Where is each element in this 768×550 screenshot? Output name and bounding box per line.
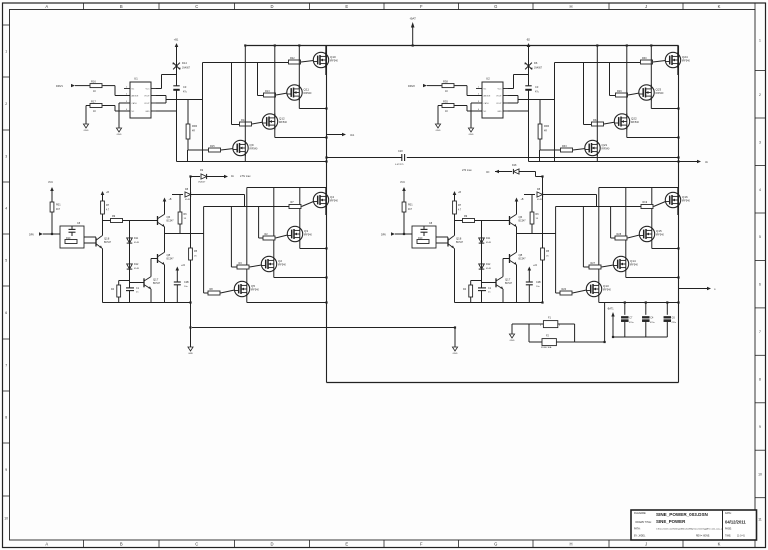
svg-text:Q3: Q3	[304, 229, 308, 233]
svg-text:GND: GND	[436, 130, 441, 132]
svg-text:6: 6	[5, 311, 7, 315]
svg-text:DRV2: DRV2	[408, 84, 415, 88]
svg-text:R17: R17	[91, 100, 96, 104]
svg-text:G: G	[494, 4, 497, 9]
svg-text:BC547: BC547	[167, 221, 175, 223]
svg-text:R30: R30	[642, 57, 647, 60]
svg-text:Q14: Q14	[630, 259, 636, 263]
svg-text:R20: R20	[562, 288, 567, 291]
svg-text:K: K	[718, 542, 721, 547]
svg-text:7: 7	[759, 330, 761, 334]
svg-text:U1: U1	[134, 77, 138, 81]
svg-text:IRF540: IRF540	[602, 148, 611, 151]
svg-text:3: 3	[5, 155, 7, 159]
svg-text:Q4: Q4	[330, 195, 334, 199]
svg-text:ANODE: ANODE	[484, 95, 491, 98]
svg-text:D11: D11	[486, 237, 491, 240]
svg-text:4K7: 4K7	[56, 209, 61, 211]
svg-text:5: 5	[5, 259, 7, 263]
svg-text:1K: 1K	[445, 110, 448, 113]
svg-text:0A: 0A	[231, 175, 234, 178]
svg-text:DRV1: DRV1	[56, 84, 63, 88]
svg-text:FUSE 30A: FUSE 30A	[541, 346, 552, 349]
svg-text:Q6: Q6	[167, 215, 171, 219]
svg-text:-B2: -B2	[526, 39, 531, 42]
svg-text:C: C	[195, 542, 198, 547]
svg-text:IRF540: IRF540	[330, 60, 339, 63]
svg-text:VOUT: VOUT	[496, 96, 502, 98]
svg-text:11: 11	[758, 517, 762, 521]
svg-text:Q17: Q17	[505, 277, 511, 281]
svg-text:IRF540: IRF540	[304, 234, 313, 237]
svg-text:CN: CN	[486, 172, 490, 174]
svg-text:D18: D18	[512, 164, 517, 167]
svg-text:R33: R33	[562, 145, 567, 148]
svg-text:H: H	[569, 4, 572, 9]
svg-text:04/12/2011: 04/12/2011	[725, 520, 746, 525]
svg-text:R38: R38	[443, 80, 448, 84]
svg-text:RFR: RFR	[192, 125, 197, 128]
svg-text:GND: GND	[84, 130, 89, 132]
svg-text:1: 1	[540, 325, 541, 327]
svg-text:E: E	[345, 542, 348, 547]
svg-text:270 max: 270 max	[462, 169, 472, 172]
svg-text:10: 10	[4, 517, 8, 521]
svg-text:R35: R35	[443, 100, 448, 104]
svg-text:DRV: DRV	[381, 234, 386, 237]
svg-text:4: 4	[5, 207, 7, 211]
svg-text:0.47/275: 0.47/275	[395, 164, 404, 166]
svg-text:CATH: CATH	[484, 102, 490, 105]
svg-text:Q22: Q22	[631, 116, 637, 120]
svg-text:2: 2	[559, 325, 560, 327]
svg-text:4K7: 4K7	[408, 209, 413, 211]
svg-text:Q15: Q15	[656, 229, 662, 233]
svg-text:1K: 1K	[93, 110, 96, 113]
svg-text:VCC: VCC	[400, 181, 405, 184]
svg-text:J: J	[645, 4, 647, 9]
svg-text:Q12: Q12	[279, 116, 285, 120]
svg-text:Q17: Q17	[153, 277, 159, 281]
svg-text:9: 9	[5, 468, 7, 472]
svg-text:IRF540: IRF540	[631, 121, 640, 124]
svg-text:11-0-41: 11-0-41	[737, 536, 745, 538]
svg-text:Q23: Q23	[656, 87, 662, 91]
svg-text:Q10: Q10	[330, 55, 336, 59]
svg-text:Q9: Q9	[250, 143, 254, 147]
svg-text:D: D	[270, 4, 273, 9]
svg-text:REV= NONE:: REV= NONE:	[696, 536, 710, 538]
svg-text:BC547: BC547	[104, 242, 112, 244]
svg-text:D: D	[270, 542, 273, 547]
svg-text:R01: R01	[56, 204, 61, 207]
svg-text:Q8: Q8	[519, 253, 523, 257]
svg-text:C2B: C2B	[184, 281, 189, 284]
svg-text:10: 10	[758, 472, 762, 476]
svg-text:BC547: BC547	[505, 283, 513, 285]
svg-text:BY: JADEL: BY: JADEL	[634, 535, 646, 538]
svg-text:R19: R19	[643, 201, 648, 204]
svg-text:1: 1	[5, 50, 7, 54]
svg-text:DATE:: DATE:	[725, 512, 732, 515]
svg-text:4R: 4R	[192, 131, 195, 133]
svg-text:IRF540: IRF540	[279, 121, 288, 124]
svg-text:B: B	[120, 542, 123, 547]
svg-text:2: 2	[5, 102, 7, 106]
svg-text:Q18: Q18	[456, 237, 462, 241]
svg-text:Q16: Q16	[682, 195, 688, 199]
svg-text:Q8: Q8	[167, 253, 171, 257]
svg-text:G: G	[494, 542, 497, 547]
svg-text:8: 8	[759, 378, 761, 382]
svg-text:-BAT: -BAT	[410, 17, 417, 21]
svg-text:IRF540: IRF540	[304, 92, 313, 95]
svg-text:VOUT: VOUT	[144, 103, 150, 105]
svg-text:B: B	[120, 4, 123, 9]
svg-text:FILENAME:: FILENAME:	[634, 512, 646, 515]
svg-text:C3: C3	[183, 85, 187, 89]
svg-text:1K: 1K	[93, 90, 96, 93]
svg-text:Q2: Q2	[278, 259, 282, 263]
svg-text:R22: R22	[290, 57, 295, 60]
svg-text:R10: R10	[418, 237, 423, 240]
svg-text:IRF540: IRF540	[250, 148, 259, 151]
svg-text:J: J	[645, 542, 647, 547]
svg-text:5: 5	[759, 235, 761, 239]
svg-text:Q13: Q13	[603, 284, 609, 288]
svg-text:-BAT1: -BAT1	[607, 308, 614, 311]
svg-text:GND: GND	[453, 353, 458, 355]
svg-text:Q6: Q6	[519, 215, 523, 219]
svg-text:8: 8	[5, 416, 7, 420]
svg-text:Q5: Q5	[251, 284, 255, 288]
svg-text:IRF540: IRF540	[682, 200, 691, 203]
svg-text:R27: R27	[591, 262, 596, 265]
svg-text:GND: GND	[497, 111, 502, 113]
svg-text:R29: R29	[617, 90, 622, 93]
svg-text:GND: GND	[145, 111, 150, 113]
svg-text:GND: GND	[188, 353, 193, 355]
svg-text:R16: R16	[91, 80, 96, 84]
svg-text:K: K	[718, 4, 721, 9]
svg-text:4148: 4148	[134, 268, 140, 270]
svg-text:+B1: +B1	[174, 39, 179, 42]
svg-text:1N4007: 1N4007	[534, 68, 543, 70]
svg-text:4148: 4148	[486, 242, 492, 244]
svg-text:R13: R13	[265, 90, 270, 93]
svg-text:Q24: Q24	[682, 55, 688, 59]
svg-text:E: E	[345, 4, 348, 9]
svg-text:IRF540: IRF540	[656, 234, 665, 237]
svg-text:GND: GND	[117, 134, 122, 136]
svg-text:BC547: BC547	[519, 259, 527, 261]
svg-text:4: 4	[759, 188, 761, 192]
svg-text:GND: GND	[510, 340, 515, 342]
svg-text:D11: D11	[134, 237, 139, 240]
svg-text:TIME:: TIME:	[725, 536, 731, 538]
svg-text:F: F	[420, 542, 423, 547]
svg-text:F: F	[420, 4, 423, 9]
svg-text:SINE_POWER: SINE_POWER	[656, 519, 686, 524]
svg-text:VCC: VCC	[146, 89, 151, 91]
svg-text:A: A	[45, 542, 48, 547]
svg-text:+B: +B	[458, 191, 461, 194]
svg-text:C:\Documents and Settings\Moha: C:\Documents and Settings\Mohamed\My Doc…	[656, 528, 723, 531]
svg-text:A: A	[45, 4, 48, 9]
svg-text:IRF540: IRF540	[603, 289, 612, 292]
svg-text:C3: C3	[535, 85, 539, 89]
svg-text:IRF540: IRF540	[682, 60, 691, 63]
svg-text:DRV: DRV	[29, 234, 34, 237]
svg-text:+B: +B	[521, 199, 524, 201]
svg-text:VOUT: VOUT	[496, 103, 502, 105]
svg-text:6: 6	[759, 283, 761, 287]
svg-text:SINE_POWER_003.DSN: SINE_POWER_003.DSN	[656, 512, 709, 517]
svg-text:1N4007: 1N4007	[182, 68, 191, 70]
svg-text:4R: 4R	[544, 131, 547, 133]
svg-text:IRF540: IRF540	[251, 289, 260, 292]
svg-text:VCC: VCC	[48, 181, 53, 184]
svg-text:D14: D14	[182, 61, 187, 65]
svg-text:C2B: C2B	[536, 281, 541, 284]
svg-text:IRF540: IRF540	[330, 200, 339, 203]
svg-text:BC547: BC547	[167, 259, 175, 261]
svg-text:+B: +B	[106, 191, 109, 194]
svg-text:VCC: VCC	[498, 89, 503, 91]
svg-text:PAGE:: PAGE:	[725, 528, 732, 531]
svg-text:ANODE: ANODE	[132, 95, 139, 98]
svg-text:Q11: Q11	[304, 87, 310, 91]
svg-text:4148: 4148	[134, 242, 140, 244]
svg-text:R01: R01	[408, 204, 413, 207]
svg-text:DRAWN TITLE:: DRAWN TITLE:	[636, 521, 652, 524]
svg-text:1N4007: 1N4007	[198, 182, 206, 184]
svg-text:C: C	[195, 4, 198, 9]
svg-text:R15: R15	[210, 145, 215, 148]
svg-text:9: 9	[759, 425, 761, 429]
svg-text:H: H	[569, 542, 572, 547]
svg-text:D6: D6	[534, 61, 538, 65]
svg-text:1K: 1K	[445, 90, 448, 93]
svg-text:BC547: BC547	[519, 221, 527, 223]
svg-text:PATH:: PATH:	[634, 528, 641, 531]
svg-text:1: 1	[759, 39, 761, 43]
svg-text:R28: R28	[617, 233, 622, 236]
svg-text:4148: 4148	[486, 268, 492, 270]
svg-text:2.5V max: 2.5V max	[240, 175, 251, 178]
svg-text:4148: 4148	[185, 199, 191, 201]
svg-text:IRF540: IRF540	[656, 92, 665, 95]
svg-text:C28: C28	[398, 150, 403, 153]
svg-text:7: 7	[5, 364, 7, 368]
svg-text:IRF540: IRF540	[278, 264, 287, 267]
svg-text:4148: 4148	[537, 199, 543, 201]
svg-text:GND: GND	[469, 134, 474, 136]
svg-text:Q18: Q18	[104, 237, 110, 241]
svg-text:RFR: RFR	[544, 125, 549, 128]
svg-text:R10: R10	[66, 237, 71, 240]
svg-text:+B: +B	[169, 199, 172, 201]
svg-text:IRF540: IRF540	[630, 264, 639, 267]
svg-text:D12: D12	[134, 263, 139, 266]
svg-text:Vo1: Vo1	[350, 134, 355, 137]
svg-text:2: 2	[759, 93, 761, 97]
svg-text:CATH: CATH	[132, 102, 138, 105]
svg-text:Q21: Q21	[602, 143, 608, 147]
svg-text:BC547: BC547	[456, 242, 464, 244]
svg-text:U2: U2	[486, 77, 490, 81]
svg-text:BC547: BC547	[153, 283, 161, 285]
svg-text:D12: D12	[486, 263, 491, 266]
svg-text:VOUT: VOUT	[144, 96, 150, 98]
svg-text:3: 3	[759, 140, 761, 144]
